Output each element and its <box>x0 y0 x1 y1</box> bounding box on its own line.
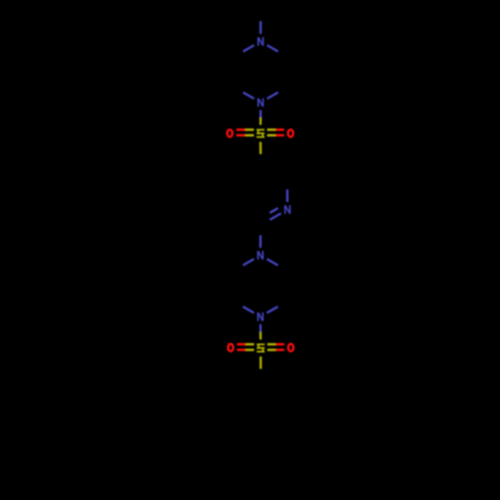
bond C6(pyridine)-N1 bottom piperazine <box>259 235 261 247</box>
atom label N pyridine <box>285 205 290 214</box>
double bond Npy=C6 pyridine outer line <box>270 213 281 220</box>
double bond S2=O right <box>267 344 284 350</box>
double bond S2=O left <box>237 344 254 350</box>
atom label N1 top piperazine (N-methyl) <box>258 37 263 46</box>
bond N1-C2 top piperazine upper-left <box>243 45 254 51</box>
phenyl ring C1-C6 (black carbon bonds, invisible on black background as in reference) <box>234 379 287 440</box>
double bond S1=O right <box>267 130 284 136</box>
double bond S1=O left <box>236 130 254 136</box>
bond S1-C3 sulfonyl to pyridine C3 <box>259 142 261 154</box>
bond N4-C5 bottom piperazine lower-right <box>267 307 278 313</box>
bond N4-C3 top piperazine lower-left <box>243 92 254 98</box>
bond N1-C6 bottom piperazine upper-right <box>267 259 278 265</box>
bond N1-C6 top piperazine upper-right <box>267 45 278 51</box>
bond N1-C2 bottom piperazine upper-left <box>243 259 254 265</box>
bond N4-S2 piperazine N to sulfonyl S2 <box>259 324 261 339</box>
bond CH3-N1 methyl to top piperazine N1 <box>259 21 261 34</box>
atom label O of S2 right <box>288 344 293 351</box>
bond S2-C1 sulfonyl to phenyl C1 <box>260 357 262 369</box>
atom label N4 bottom piperazine <box>258 312 263 321</box>
bond Npy-C2 pyridine N to C2 (vertical) <box>286 190 288 203</box>
bond N4-S1 piperazine N to sulfonyl S1 <box>259 110 261 125</box>
atom label N1 bottom piperazine <box>258 251 263 260</box>
atom label O of S1 right <box>288 130 293 137</box>
atom label S1 sulfonyl sulfur <box>257 130 263 137</box>
bond N4-C5 top piperazine lower-right <box>267 92 278 98</box>
double bond Npy=C6 pyridine inner line <box>270 208 278 213</box>
atom label O of S2 left <box>228 344 233 351</box>
piperazine and pyridine carbon-carbon edges (black, invisible on black background) <box>234 57 287 302</box>
atom label N4 top piperazine <box>258 98 263 107</box>
atom label O of S1 left <box>227 130 232 137</box>
bond N4-C3 bottom piperazine lower-left <box>243 307 254 313</box>
atom label S2 sulfonyl sulfur <box>258 344 264 351</box>
